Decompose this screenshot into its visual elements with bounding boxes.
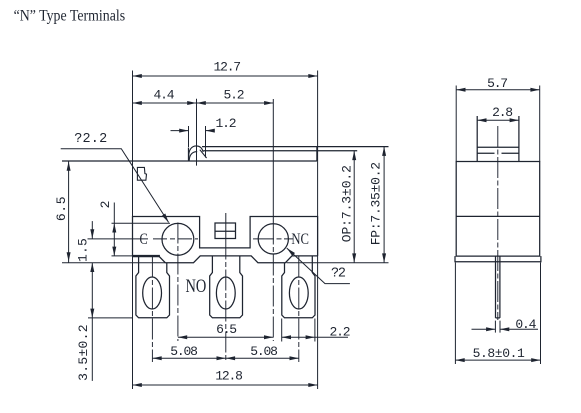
circle C horizontal centerline right segment xyxy=(153,238,198,240)
leader ?2.2 underline and arrow xyxy=(61,149,169,223)
svg-text:1.2: 1.2 xyxy=(216,116,236,131)
terminal NO oval hole xyxy=(216,277,235,309)
side view button sides / 2.8 extensions xyxy=(476,116,478,162)
svg-text:OP:7.3±0.2: OP:7.3±0.2 xyxy=(340,165,355,242)
lever tip edge xyxy=(316,147,318,161)
svg-text:5.08: 5.08 xyxy=(170,344,197,359)
lever curl fold line xyxy=(200,150,207,158)
circle NC horizontal centerline xyxy=(253,238,294,240)
dimension OP vertical xyxy=(353,151,355,263)
side view extension line left (5.7) xyxy=(455,86,457,162)
side view body division line xyxy=(456,215,540,217)
svg-text:NC: NC xyxy=(291,231,309,248)
svg-text:4.4: 4.4 xyxy=(154,88,175,103)
dimension 3.5+-0.2 vertical xyxy=(91,263,93,381)
dimension 2.2 xyxy=(282,336,348,338)
extension line 1.2 right xyxy=(205,126,207,158)
dimension 5.8+-0.1 xyxy=(455,359,540,361)
circle C vertical centerline xyxy=(177,223,179,342)
side view button top xyxy=(477,146,519,148)
extension line right (lever tip / body right edge / 12.8) xyxy=(317,71,319,390)
dimension 6.5 bottom xyxy=(178,336,273,338)
svg-text:2.8: 2.8 xyxy=(492,105,512,120)
svg-text:C: C xyxy=(140,231,148,248)
lever arm bottom edge / 6.5 extension xyxy=(62,160,317,162)
extension line y=255.9 (2 dim bottom) xyxy=(112,255,134,257)
plunger grid middle line xyxy=(215,230,236,232)
dimension 2.8 xyxy=(477,119,519,121)
lever arm inner edge / OP extension xyxy=(204,150,358,152)
small boss detail on housing xyxy=(137,167,146,180)
terminal NC oval hole xyxy=(289,277,308,309)
side view centerline xyxy=(497,126,499,320)
svg-text:2: 2 xyxy=(98,201,113,208)
lever arm top edge / FP extension xyxy=(202,146,389,148)
svg-text:2.2: 2.2 xyxy=(330,324,350,339)
svg-text:?2: ?2 xyxy=(331,267,346,282)
svg-text:6.5: 6.5 xyxy=(54,196,69,221)
svg-text:3.5±0.2: 3.5±0.2 xyxy=(76,324,91,381)
plunger grid rectangle xyxy=(215,223,236,239)
terminal NC centerline xyxy=(298,257,300,363)
dimension 1.5 vertical with outside arrows xyxy=(91,221,93,239)
hole circle NC (dia 2) xyxy=(258,224,288,254)
side view button step line xyxy=(477,152,494,154)
plunger centerline extension xyxy=(196,99,198,166)
switch body bottom outline with notches xyxy=(133,256,318,263)
terminal C centerline xyxy=(151,257,153,363)
leader ?2 underline and arrow xyxy=(287,248,350,284)
terminal NC outline xyxy=(282,256,315,318)
svg-text:FP:7.35±0.2: FP:7.35±0.2 xyxy=(369,162,384,245)
mounting reference line right xyxy=(287,262,389,264)
dimension 2 vertical xyxy=(113,203,115,256)
extension line y=223 (circle C top) xyxy=(112,222,171,224)
svg-text:NO: NO xyxy=(186,276,207,297)
dimension 4.4 xyxy=(133,102,197,104)
hole circle C (dia 2.2) xyxy=(162,223,194,255)
dimension 12.7 top xyxy=(133,75,318,77)
NO centerline through plunger xyxy=(225,213,227,239)
dimension 5.08 right xyxy=(226,357,299,359)
svg-text:6.5: 6.5 xyxy=(216,322,236,337)
dimension 12.8 xyxy=(133,384,318,386)
side view extension line right (5.7) xyxy=(539,86,541,162)
extension lines 2.2 xyxy=(281,319,283,342)
dimension 5.2 xyxy=(197,102,274,104)
svg-text:12.7: 12.7 xyxy=(214,60,241,75)
mounting reference line left xyxy=(62,262,165,264)
lever curl outer arc xyxy=(189,146,204,157)
side view flange xyxy=(455,256,541,262)
bold datum segment on body bottom left xyxy=(132,255,160,257)
dimension 5.08 left xyxy=(152,357,225,359)
dimension 5.7 xyxy=(456,89,540,91)
pin extension lines 0.4 xyxy=(494,321,496,333)
terminal C outline xyxy=(136,256,170,318)
svg-text:?2.2: ?2.2 xyxy=(74,132,107,147)
svg-text:0.4: 0.4 xyxy=(515,317,536,332)
svg-text:5.08: 5.08 xyxy=(250,344,277,359)
lever curl inner arc xyxy=(189,152,197,161)
extension line terminal bottom left xyxy=(88,317,133,319)
circle NC vertical centerline / 5.2 extension xyxy=(272,99,274,224)
svg-text:5.8±0.1: 5.8±0.1 xyxy=(473,346,525,361)
terminal C oval hole xyxy=(143,277,162,309)
svg-text:5.2: 5.2 xyxy=(224,88,244,103)
switch body upper outline xyxy=(133,217,318,256)
svg-text:“N” Type Terminals: “N” Type Terminals xyxy=(14,7,126,24)
dimension 1.2 xyxy=(171,130,189,132)
svg-text:1.5: 1.5 xyxy=(76,238,91,262)
svg-text:12.8: 12.8 xyxy=(215,369,242,384)
dimension 6.5 left vertical xyxy=(68,162,70,263)
side view pin xyxy=(495,256,497,318)
extension lines 5.8 xyxy=(454,263,456,365)
dimension FP vertical xyxy=(383,147,385,263)
side view body outline xyxy=(456,162,540,257)
extension line 1.2 left xyxy=(188,126,190,147)
svg-text:5.7: 5.7 xyxy=(487,76,507,91)
dimension 0.4 xyxy=(472,328,496,330)
extension line left (body left edge / 12.7 / 12.8) xyxy=(132,71,134,390)
circle C horizontal centerline left segment xyxy=(88,238,149,240)
terminal NO outline xyxy=(210,256,243,318)
lever curl left edge xyxy=(188,148,190,162)
